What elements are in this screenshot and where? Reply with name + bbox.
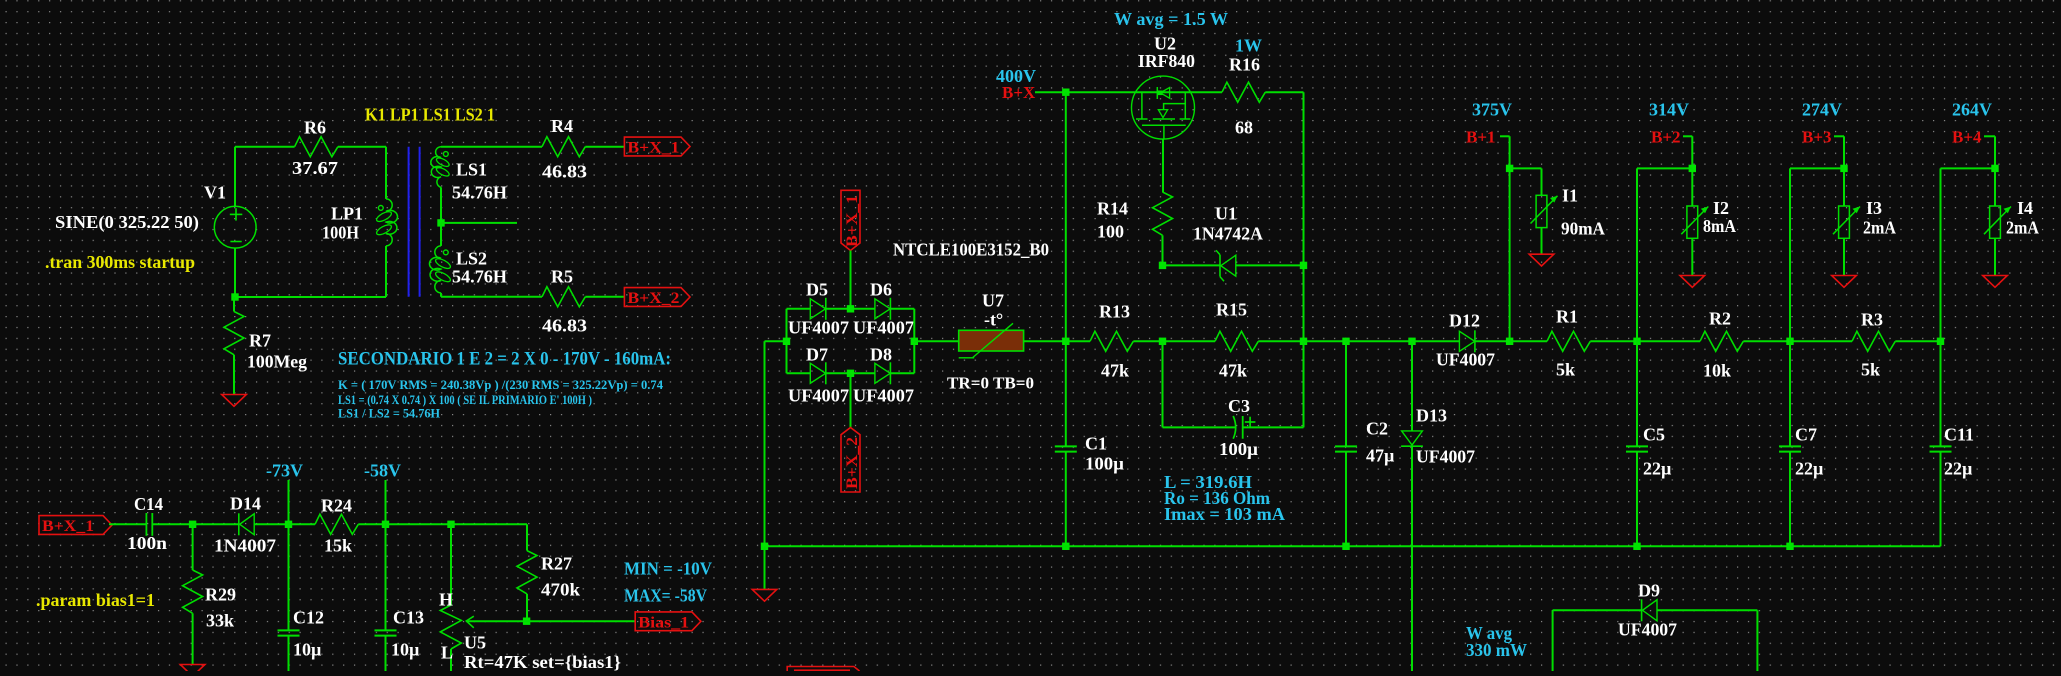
svg-text:R5: R5 xyxy=(551,267,573,287)
wire C5 top lead xyxy=(1636,341,1638,446)
wire C11 bottom xyxy=(1940,452,1942,547)
svg-text:1W: 1W xyxy=(1235,36,1262,56)
wire R14 to zener row xyxy=(1162,235,1164,265)
thermistor U7 xyxy=(959,330,1024,351)
bridge bottom rail seg2 xyxy=(826,372,875,374)
current source I3 xyxy=(1839,206,1850,238)
svg-text:5k: 5k xyxy=(1861,360,1880,380)
svg-text:R27: R27 xyxy=(541,554,572,574)
node C14/R29/D14 xyxy=(189,521,196,528)
svg-text:B+X_1: B+X_1 xyxy=(42,518,94,535)
node B+1 xyxy=(1506,165,1513,172)
svg-text:B+X_1: B+X_1 xyxy=(627,140,679,157)
node bridge left xyxy=(783,338,790,345)
wire C13 bottom xyxy=(385,636,387,671)
net flag Bias_1 xyxy=(635,612,701,631)
wire top left xyxy=(235,146,295,148)
svg-text:D14: D14 xyxy=(230,494,261,514)
wire to C2 node xyxy=(1304,340,1347,342)
zener U1 1N4742A xyxy=(1221,255,1236,276)
node C5/0V xyxy=(1633,543,1640,550)
wire B+2 to rail xyxy=(1637,167,1692,169)
node C2 top xyxy=(1342,338,1349,345)
svg-text:B+X_1: B+X_1 xyxy=(844,195,861,247)
ground I1 xyxy=(1529,254,1554,266)
svg-text:R16: R16 xyxy=(1229,55,1260,75)
wire R13 to R15 xyxy=(1133,340,1215,342)
wire LS2 bottom lead xyxy=(440,293,442,297)
wire flag to bridge top xyxy=(850,251,852,309)
svg-text:SINE(0 325.22 50): SINE(0 325.22 50) xyxy=(55,212,199,233)
svg-text:10k: 10k xyxy=(1703,361,1731,381)
node center tap xyxy=(437,219,444,226)
node zener left xyxy=(1159,262,1166,269)
wire to R3 xyxy=(1790,340,1852,342)
wire V1 top xyxy=(234,147,236,207)
svg-text:R24: R24 xyxy=(321,496,352,516)
node C2/0V rail xyxy=(1342,543,1349,550)
svg-text:22µ: 22µ xyxy=(1795,459,1824,479)
wire LS1 to R4 xyxy=(460,146,542,148)
node B+X xyxy=(1062,89,1069,96)
wire left down to 0V rail xyxy=(764,341,766,546)
wire wiper to Bias_1 xyxy=(466,620,635,622)
wire right vertical xyxy=(1303,92,1305,341)
wire R4 to flag xyxy=(585,146,624,148)
svg-text:100µ: 100µ xyxy=(1085,454,1125,474)
wire LS2 to R5 xyxy=(460,296,542,298)
node R13/R15/C3 xyxy=(1159,338,1166,345)
wire B+4 down xyxy=(1994,136,1996,206)
capacitor C7 xyxy=(1779,445,1801,447)
wire bridge left out xyxy=(765,340,787,342)
wire R29 bottom lead xyxy=(192,613,194,664)
svg-text:22µ: 22µ xyxy=(1944,459,1973,479)
svg-text:UF4007: UF4007 xyxy=(1436,350,1495,370)
svg-text:D9: D9 xyxy=(1638,581,1660,601)
svg-text:37.67: 37.67 xyxy=(292,158,338,178)
resistor R1 xyxy=(1547,331,1590,351)
ground I3 xyxy=(1832,276,1857,288)
wire to ground xyxy=(764,546,766,589)
svg-text:B+4: B+4 xyxy=(1952,128,1982,147)
ground under R7 xyxy=(222,395,247,407)
svg-text:-58V: -58V xyxy=(364,461,401,481)
capacitor C14 xyxy=(145,513,147,536)
capacitor C5 xyxy=(1626,445,1648,447)
wire I4 bottom lead xyxy=(1994,238,1996,275)
node zener right xyxy=(1300,262,1307,269)
wire B+2 rail xyxy=(1636,168,1638,341)
wire R6 to LP1 xyxy=(338,146,386,148)
node C7/0V xyxy=(1786,543,1793,550)
svg-text:R3: R3 xyxy=(1861,310,1883,330)
resistor R3 xyxy=(1852,331,1895,351)
inductor LS1 coil xyxy=(431,147,441,188)
wire D12 to B+1 rail xyxy=(1475,340,1510,342)
wire B+2 down xyxy=(1691,136,1693,206)
svg-text:1N4742A: 1N4742A xyxy=(1193,224,1263,244)
svg-text:U5: U5 xyxy=(464,633,486,653)
net flag B+X_2 out2 xyxy=(624,288,690,307)
ground main xyxy=(752,589,777,601)
svg-text:47µ: 47µ xyxy=(1366,446,1395,466)
wire R24 to node -58V xyxy=(358,523,385,525)
svg-text:375V: 375V xyxy=(1472,100,1512,120)
wire R27 top lead xyxy=(526,524,528,550)
svg-text:C3: C3 xyxy=(1228,396,1250,416)
capacitor C11 xyxy=(1930,445,1952,447)
wire C7 bottom xyxy=(1789,452,1791,547)
node B+2 xyxy=(1689,165,1696,172)
svg-text:UF4007: UF4007 xyxy=(788,386,849,406)
wire C12 bottom xyxy=(288,636,290,671)
wire R15 to node xyxy=(1258,340,1303,342)
svg-text:15k: 15k xyxy=(324,536,352,556)
svg-text:10µ: 10µ xyxy=(391,640,420,660)
capacitor C13 xyxy=(375,629,397,631)
wire I1 top lead xyxy=(1541,168,1543,195)
svg-text:NTCLE100E3152_B0: NTCLE100E3152_B0 xyxy=(893,240,1049,260)
svg-text:MAX= -58V: MAX= -58V xyxy=(624,586,707,606)
wire to R27 xyxy=(451,523,527,525)
node C11 top xyxy=(1937,338,1944,345)
svg-text:UF4007: UF4007 xyxy=(788,318,849,338)
wire flag to C14 xyxy=(109,523,146,525)
svg-text:B+X_2: B+X_2 xyxy=(627,290,679,307)
wire LS1 to tap xyxy=(440,187,442,223)
node -58V xyxy=(382,521,389,528)
wire to R1 xyxy=(1510,340,1547,342)
svg-text:330 mW: 330 mW xyxy=(1466,640,1527,660)
node U7/C1 xyxy=(1062,338,1069,345)
svg-text:C13: C13 xyxy=(393,608,424,628)
wire R2 to C7 node xyxy=(1743,340,1790,342)
node B+1 rail bottom xyxy=(1506,338,1513,345)
svg-text:46.83: 46.83 xyxy=(542,162,587,182)
node D13 top xyxy=(1408,338,1415,345)
wire D13 top lead xyxy=(1411,341,1413,431)
current source I2 xyxy=(1687,206,1698,238)
svg-text:46.83: 46.83 xyxy=(542,316,587,336)
svg-text:I3: I3 xyxy=(1866,198,1882,218)
svg-text:68: 68 xyxy=(1235,118,1253,138)
svg-text:C5: C5 xyxy=(1643,425,1665,445)
bridge bottom rail seg1 xyxy=(787,372,811,374)
svg-text:UF4007: UF4007 xyxy=(1416,447,1475,467)
resistor R4 xyxy=(542,137,585,157)
wire C1 column xyxy=(1065,92,1067,446)
svg-text:R29: R29 xyxy=(205,585,236,605)
svg-text:100Meg: 100Meg xyxy=(247,352,307,372)
wire B+3 rail xyxy=(1789,168,1791,341)
svg-text:274V: 274V xyxy=(1802,100,1842,120)
wire B+4 rail xyxy=(1940,168,1942,341)
resistor R29 xyxy=(192,524,194,570)
node 0V/ground xyxy=(761,543,768,550)
resistor R27 xyxy=(517,551,537,594)
net flag B+X_1 out1 xyxy=(624,137,690,156)
svg-text:8mA: 8mA xyxy=(1703,216,1736,236)
svg-text:.tran 300ms startup: .tran 300ms startup xyxy=(45,252,195,272)
node R27/wiper xyxy=(523,618,530,625)
svg-text:33k: 33k xyxy=(206,611,234,631)
svg-text:I2: I2 xyxy=(1713,198,1729,218)
node C7 top xyxy=(1786,338,1793,345)
MOSFET U2 IRF840 xyxy=(1132,76,1195,139)
svg-text:54.76H: 54.76H xyxy=(452,183,507,203)
bridge right side xyxy=(913,309,915,374)
wire C2 top lead xyxy=(1345,341,1347,446)
svg-text:I4: I4 xyxy=(2017,198,2033,218)
voltage source V1 xyxy=(214,206,256,248)
ground I4 xyxy=(1983,276,2008,288)
svg-text:Bias_1: Bias_1 xyxy=(638,615,689,632)
wire C1 bottom xyxy=(1065,452,1067,547)
wire LP1 top lead xyxy=(385,147,387,199)
svg-text:54.76H: 54.76H xyxy=(452,267,507,287)
svg-text:2mA: 2mA xyxy=(2006,218,2039,238)
svg-text:314V: 314V xyxy=(1649,100,1689,120)
svg-text:Imax = 103 mA: Imax = 103 mA xyxy=(1164,504,1285,524)
wire I2 bottom lead xyxy=(1691,238,1693,275)
node B+4 xyxy=(1991,165,1998,172)
wire D13 down xyxy=(1411,446,1413,671)
svg-text:100µ: 100µ xyxy=(1219,439,1259,459)
svg-text:LP1: LP1 xyxy=(331,204,363,224)
svg-text:47k: 47k xyxy=(1219,361,1247,381)
wire U1 to right vertical xyxy=(1236,264,1304,266)
svg-text:D8: D8 xyxy=(870,345,892,365)
wire B+3 flag xyxy=(1834,135,1844,137)
wire I1 bottom lead xyxy=(1541,228,1543,255)
wire tap to LS2 xyxy=(440,223,442,246)
diode D14 xyxy=(240,514,255,535)
svg-text:5k: 5k xyxy=(1556,360,1575,380)
wire -73V column xyxy=(288,480,290,630)
wire B+X rail xyxy=(1035,91,1222,93)
svg-text:100: 100 xyxy=(1097,222,1124,242)
flag B+X_1 vertical xyxy=(841,190,860,250)
capacitor C3 loop xyxy=(1162,341,1164,427)
wire pot top lead xyxy=(450,524,452,605)
svg-text:.param bias1=1: .param bias1=1 xyxy=(36,590,155,610)
svg-text:B+2: B+2 xyxy=(1651,128,1681,147)
diode D7 xyxy=(810,363,825,383)
wire D14 to node -73V xyxy=(254,523,288,525)
wire to D12 xyxy=(1412,340,1459,342)
flag B+X_2 vertical xyxy=(850,373,852,427)
wire B+3 to rail xyxy=(1790,167,1844,169)
svg-text:264V: 264V xyxy=(1952,100,1992,120)
ground under R29 xyxy=(180,665,205,676)
net flag B+X_1 in xyxy=(39,516,112,535)
capacitor C1 xyxy=(1055,445,1077,447)
wire R3 to C11 node xyxy=(1895,340,1940,342)
resistor R15 xyxy=(1215,331,1258,351)
capacitor C12 xyxy=(278,629,300,631)
wire B+4 to rail xyxy=(1941,167,1996,169)
svg-text:K1 LP1 LS1 LS2 1: K1 LP1 LS1 LS2 1 xyxy=(365,105,495,125)
wire -58V column xyxy=(385,480,387,630)
current source I1 xyxy=(1536,195,1547,227)
svg-text:K = ( 170V RMS = 240.38Vp ) /(: K = ( 170V RMS = 240.38Vp ) /(230 RMS = … xyxy=(338,377,663,392)
svg-text:I1: I1 xyxy=(1562,186,1578,206)
diode D5 xyxy=(810,299,825,319)
svg-text:U7: U7 xyxy=(982,291,1004,311)
svg-text:LS2: LS2 xyxy=(456,249,487,269)
svg-text:C11: C11 xyxy=(1944,425,1974,445)
node pot H xyxy=(447,521,454,528)
svg-text:B+1: B+1 xyxy=(1466,128,1496,147)
wire 0V rail xyxy=(765,545,1941,547)
wire U7 to C1 rail xyxy=(1024,340,1066,342)
svg-text:D13: D13 xyxy=(1416,406,1447,426)
wire D9 left top xyxy=(1553,609,1642,611)
svg-text:100H: 100H xyxy=(322,223,359,243)
svg-text:22µ: 22µ xyxy=(1643,459,1672,479)
wire LS2 bottom stub xyxy=(441,296,460,298)
svg-text:L: L xyxy=(441,643,453,663)
node C1/0V rail xyxy=(1062,543,1069,550)
svg-text:R15: R15 xyxy=(1216,300,1247,320)
wire D9 right side xyxy=(1756,610,1758,671)
resistor R14 xyxy=(1153,192,1173,235)
wire B+1 rail xyxy=(1509,136,1511,341)
wire D9 left side xyxy=(1552,610,1554,671)
wire C11 top lead xyxy=(1940,341,1942,446)
svg-text:90mA: 90mA xyxy=(1561,219,1605,239)
wire D9 right top xyxy=(1657,609,1757,611)
svg-text:D7: D7 xyxy=(806,345,828,365)
svg-text:SECONDARIO 1 E 2 = 2 X 0 - 17: SECONDARIO 1 E 2 = 2 X 0 - 170V - 160mA: xyxy=(338,349,671,370)
partial flag bottom edge xyxy=(787,667,859,672)
wire C5 bottom xyxy=(1636,452,1638,547)
svg-text:B+3: B+3 xyxy=(1802,128,1832,147)
svg-text:R14: R14 xyxy=(1097,199,1128,219)
diode D8 xyxy=(875,363,890,383)
resistor R16 xyxy=(1222,82,1265,102)
wire C2 bottom xyxy=(1345,452,1347,547)
wire V1 bottom xyxy=(234,248,236,297)
svg-text:R2: R2 xyxy=(1709,309,1731,329)
diode D13 xyxy=(1402,431,1423,445)
resistor R13 xyxy=(1090,331,1133,351)
wire to D13 node xyxy=(1346,340,1412,342)
svg-text:UF4007: UF4007 xyxy=(853,318,914,338)
node V1-/R7 xyxy=(231,293,238,300)
wire I3 bottom lead xyxy=(1843,238,1845,275)
wire C7 top lead xyxy=(1789,341,1791,446)
wire R1 to C5 node xyxy=(1590,340,1637,342)
bridge top rail seg1 xyxy=(787,308,811,310)
svg-text:D12: D12 xyxy=(1449,311,1480,331)
diode D6 xyxy=(875,299,890,319)
svg-text:MIN = -10V: MIN = -10V xyxy=(624,559,712,579)
svg-text:R7: R7 xyxy=(249,331,271,351)
svg-text:C14: C14 xyxy=(134,494,163,514)
bridge bottom rail seg3 xyxy=(890,372,914,374)
pot wiper arrow xyxy=(466,616,474,628)
svg-text:C2: C2 xyxy=(1366,419,1388,439)
wire R27 bottom lead xyxy=(526,594,528,621)
wire to R24 xyxy=(289,523,316,525)
svg-text:C1: C1 xyxy=(1085,434,1107,454)
diode D9 xyxy=(1643,600,1658,621)
svg-text:D6: D6 xyxy=(870,280,892,300)
wire U2 source to R14 xyxy=(1162,139,1164,192)
diode D12 xyxy=(1459,331,1474,351)
svg-text:Rt=47K set={bias1}: Rt=47K set={bias1} xyxy=(464,652,621,671)
wire bridge to U7 xyxy=(914,340,958,342)
svg-text:C7: C7 xyxy=(1795,425,1817,445)
capacitor C2 xyxy=(1335,445,1357,447)
current source I4 xyxy=(1990,206,2001,238)
LP1 phase dot xyxy=(378,206,383,211)
wire bottom left loop xyxy=(235,296,386,298)
node bridge top xyxy=(847,305,854,312)
wire LP1 bottom lead xyxy=(385,246,387,297)
node bridge bottom xyxy=(847,370,854,377)
bridge left side xyxy=(786,309,788,374)
resistor R24 xyxy=(315,514,358,534)
svg-text:R4: R4 xyxy=(551,116,573,136)
wire LS1 top stub xyxy=(441,146,460,148)
svg-text:W avg = 1.5 W: W avg = 1.5 W xyxy=(1114,9,1228,29)
svg-text:LS1 / LS2 = 54.76H: LS1 / LS2 = 54.76H xyxy=(338,406,440,421)
resistor R5 xyxy=(542,287,585,307)
svg-text:C12: C12 xyxy=(293,608,324,628)
wire R7 top lead xyxy=(233,297,235,312)
wire to U1 xyxy=(1163,264,1221,266)
wire to pot node xyxy=(386,523,452,525)
svg-text:UF4007: UF4007 xyxy=(1618,620,1677,640)
svg-text:470k: 470k xyxy=(541,580,580,600)
svg-text:LS1: LS1 xyxy=(456,160,487,180)
svg-text:2mA: 2mA xyxy=(1863,218,1896,238)
svg-text:-73V: -73V xyxy=(266,461,303,481)
wire C14 to node xyxy=(152,523,192,525)
bridge top rail seg3 xyxy=(890,308,914,310)
svg-text:TR=0 TB=0: TR=0 TB=0 xyxy=(947,374,1034,393)
resistor R6 xyxy=(295,137,338,157)
svg-text:R6: R6 xyxy=(304,118,326,138)
wire to R2 xyxy=(1637,340,1700,342)
svg-text:R13: R13 xyxy=(1099,302,1130,322)
ground I2 xyxy=(1680,276,1705,288)
wire node to D14 xyxy=(193,523,239,525)
svg-text:47k: 47k xyxy=(1101,361,1129,381)
resistor R2 xyxy=(1700,331,1743,351)
inductor LP1 coil xyxy=(386,199,398,246)
wire R16 to corner xyxy=(1265,91,1303,93)
node C3 right xyxy=(1300,338,1307,345)
svg-text:D5: D5 xyxy=(806,280,828,300)
svg-text:IRF840: IRF840 xyxy=(1138,51,1195,71)
transformer core xyxy=(408,147,410,297)
svg-text:-t°: -t° xyxy=(984,310,1003,330)
svg-text:V1: V1 xyxy=(204,183,226,203)
wire B+3 down xyxy=(1843,136,1845,206)
node -73V xyxy=(285,521,292,528)
wire R5 to flag xyxy=(585,296,624,298)
wire center tap stub xyxy=(441,222,517,224)
svg-text:100n: 100n xyxy=(127,533,167,553)
wire to R13 xyxy=(1066,340,1090,342)
svg-text:UF4007: UF4007 xyxy=(853,386,914,406)
bridge top rail seg2 xyxy=(826,308,875,310)
wire B+1 to I1 xyxy=(1510,167,1542,169)
